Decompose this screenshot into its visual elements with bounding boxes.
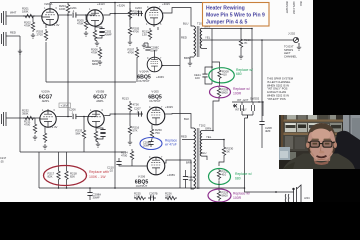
svg-text:THIS SPKR SYSTEM: THIS SPKR SYSTEM bbox=[267, 77, 294, 81]
pentode V204A output second bbox=[147, 57, 162, 72]
purple ellipse 1 bbox=[210, 86, 231, 98]
svg-text:V-206: V-206 bbox=[138, 175, 146, 179]
svg-text:OUTPUT: OUTPUT bbox=[136, 184, 148, 188]
svg-text:3300: 3300 bbox=[165, 194, 172, 198]
resistor R206 cathode 2 bbox=[94, 26, 96, 28]
svg-text:2K: 2K bbox=[227, 150, 231, 154]
svg-text:100R: 100R bbox=[233, 196, 242, 200]
svg-text:"INT ONLY" POS: "INT ONLY" POS bbox=[267, 87, 288, 91]
resistor R212 cathode output bbox=[148, 28, 151, 40]
channel 2 input jack bbox=[2, 112, 9, 126]
svg-text:AMPL: AMPL bbox=[42, 99, 50, 103]
T202 leads bbox=[182, 131, 224, 161]
annotation box heater rewiring bbox=[203, 3, 270, 27]
resistor R207 bbox=[129, 20, 131, 25]
svg-text:WHT: WHT bbox=[10, 11, 17, 15]
pentode V205 output mid bbox=[147, 107, 165, 125]
svg-text:INT ONLY: INT ONLY bbox=[235, 108, 247, 112]
purple ellipse 2 bbox=[208, 189, 231, 202]
triode V203A ch2 bbox=[40, 111, 56, 127]
ears bbox=[306, 142, 310, 148]
svg-text:+302V: +302V bbox=[162, 2, 170, 6]
svg-text:+1.4V: +1.4V bbox=[50, 125, 58, 129]
resistor R201 grid stopper bbox=[23, 14, 35, 17]
svg-text:410: 410 bbox=[222, 173, 227, 177]
cathode network V203B bbox=[95, 127, 97, 129]
forehead bbox=[312, 129, 331, 141]
wire: vertical x68 coupling node bbox=[67, 15, 69, 117]
svg-text:INT - EXT: INT - EXT bbox=[237, 98, 249, 102]
svg-text:4MF: 4MF bbox=[265, 129, 271, 133]
svg-text:YEL: YEL bbox=[205, 36, 211, 40]
svg-text:+211V: +211V bbox=[97, 2, 105, 6]
junction dots various bbox=[67, 14, 69, 16]
resistor R203 cathode ch1 bbox=[45, 24, 47, 28]
svg-text:Heater Rewiring: Heater Rewiring bbox=[206, 5, 245, 11]
wire: vertical x20 left bbox=[19, 36, 21, 152]
svg-text:.02: .02 bbox=[150, 194, 154, 198]
wire: input ch2 bbox=[8, 117, 40, 119]
wire: vertical x46 cathode ch1 bbox=[45, 42, 47, 82]
wire: vertical bus x130 top bbox=[129, 3, 131, 21]
webcam photo bbox=[279, 115, 360, 169]
svg-text:82K: 82K bbox=[70, 175, 75, 179]
green ellipse 2 bbox=[209, 169, 231, 185]
svg-text:470K: 470K bbox=[128, 51, 135, 55]
cheek shading bbox=[310, 148, 314, 156]
svg-text:Replace w/: Replace w/ bbox=[233, 87, 250, 91]
svg-text:V201A: V201A bbox=[44, 2, 53, 6]
resistor R229 in purple ellipse 2 bbox=[218, 180, 220, 188]
wire: horizontal y82 bbox=[46, 81, 136, 83]
svg-text:180K: 180K bbox=[22, 10, 29, 14]
speaker bbox=[285, 185, 301, 202]
svg-text:40MF: 40MF bbox=[105, 33, 112, 37]
photo background bbox=[279, 115, 360, 169]
eyebrows bbox=[312, 139, 319, 141]
resistor R232 horizontal bbox=[23, 116, 35, 119]
capacitor C208 right bbox=[259, 122, 264, 125]
ground at x20 bbox=[18, 49, 22, 54]
tube label V204A 6BQ5 bbox=[137, 70, 151, 84]
svg-text:R213: R213 bbox=[122, 97, 129, 101]
capacitor C204 ch2 bbox=[73, 114, 76, 119]
wire: red ellipse resistor columns bbox=[59, 152, 67, 188]
wire: vertical bus x115 bbox=[114, 3, 116, 189]
svg-text:J204: J204 bbox=[304, 196, 310, 200]
svg-text:AMPL: AMPL bbox=[96, 99, 104, 103]
capacitor CE11 bbox=[202, 74, 207, 77]
resistor R211 grid leak ch2 bbox=[34, 118, 36, 122]
svg-text:.05: .05 bbox=[0, 160, 4, 164]
red ellipse resistors R217 R218 bbox=[57, 169, 60, 181]
wire: sw drop to speaker bus bbox=[245, 118, 295, 192]
blue ellipse bbox=[140, 138, 162, 150]
svg-text:100: 100 bbox=[195, 76, 200, 80]
svg-text:CHANNEL: CHANNEL bbox=[284, 54, 297, 58]
resistor upper mid at x100 bbox=[98, 47, 101, 59]
second equipment row bbox=[284, 122, 342, 133]
svg-text:5600: 5600 bbox=[222, 194, 229, 198]
resistor R213 ch2 plate bbox=[128, 101, 131, 113]
svg-text:27K: 27K bbox=[133, 129, 138, 133]
junction dots bottom bus bbox=[58, 187, 60, 189]
resistor R228 in green ellipse 2 bbox=[217, 168, 220, 180]
input jack J2 bbox=[2, 32, 9, 46]
svg-text:"INT-EXT" POS: "INT-EXT" POS bbox=[267, 97, 286, 101]
svg-text:410: 410 bbox=[222, 73, 227, 77]
svg-text:V-204A: V-204A bbox=[139, 70, 148, 74]
svg-text:7K: 7K bbox=[244, 41, 248, 45]
tube label V203B 6CG7 bbox=[93, 90, 107, 104]
green ellipse 1 bbox=[209, 68, 235, 83]
svg-text:470K: 470K bbox=[91, 51, 98, 55]
svg-text:470K: 470K bbox=[133, 30, 140, 34]
wire: screen bbox=[154, 25, 158, 30]
svg-text:750: 750 bbox=[155, 131, 160, 135]
capacitor C208C with ground bbox=[145, 47, 150, 50]
pentode V206 output bottom bbox=[147, 157, 165, 175]
svg-text:.02: .02 bbox=[109, 169, 113, 173]
resistor R202 grid leak bbox=[32, 16, 34, 20]
resistor R214 bbox=[130, 149, 133, 161]
capacitor C208B in blue ellipse bbox=[148, 142, 153, 145]
wire: input 2 down bbox=[8, 35, 20, 37]
resistor R204A plate load bbox=[128, 8, 131, 20]
svg-text:4700: 4700 bbox=[121, 154, 128, 158]
svg-text:82K: 82K bbox=[48, 175, 53, 179]
svg-text:RED: RED bbox=[181, 36, 187, 40]
connector J202 bbox=[293, 37, 299, 45]
wire: x212 down segment bbox=[211, 29, 213, 85]
svg-text:Replace w/: Replace w/ bbox=[235, 172, 252, 176]
tube label V203A 6CG7 bbox=[39, 90, 53, 104]
resistor R216 ch2 bbox=[128, 124, 131, 136]
wire: plate to coupling cap bbox=[58, 14, 72, 16]
svg-text:+16V: +16V bbox=[61, 104, 68, 108]
light items bottom left bbox=[279, 147, 290, 160]
capacitor C201 bbox=[73, 12, 76, 17]
wire: plate up to bus bbox=[49, 3, 51, 9]
+16V boxed label bbox=[59, 103, 71, 108]
svg-text:100K: 100K bbox=[59, 7, 66, 11]
resistor R215 cathode mid bbox=[151, 125, 153, 128]
transformer T201 bbox=[194, 26, 202, 57]
right black bar bbox=[313, 0, 360, 202]
svg-text:470K: 470K bbox=[77, 22, 84, 26]
head bbox=[307, 123, 335, 161]
wire: V205 plate to T202 bbox=[165, 114, 194, 129]
svg-text:IS LEFT CHANNEL: IS LEFT CHANNEL bbox=[267, 80, 291, 84]
transformer T202 bbox=[194, 128, 202, 189]
capacitor C210 bbox=[116, 162, 121, 165]
svg-text:100K - 1W: 100K - 1W bbox=[89, 175, 106, 179]
input jack J1 bbox=[2, 11, 9, 25]
glasses lens tint bbox=[310, 141, 319, 147]
capacitor C212 bbox=[183, 177, 188, 180]
svg-text:V-205: V-205 bbox=[151, 90, 159, 94]
shelf board 1 bbox=[281, 120, 343, 122]
switch SW202 bbox=[232, 102, 263, 118]
svg-text:680: 680 bbox=[236, 72, 242, 76]
svg-text:100R: 100R bbox=[233, 91, 242, 95]
wire: input 1 to grid bbox=[8, 15, 42, 17]
resistor R230 bbox=[222, 145, 225, 157]
svg-text:WHEN S202 IS IN: WHEN S202 IS IN bbox=[267, 83, 289, 87]
capacitor C202 cathode bypass bbox=[99, 29, 104, 32]
svg-text:Jumper Pin 4 & 5: Jumper Pin 4 & 5 bbox=[206, 19, 247, 25]
glasses bbox=[308, 141, 335, 147]
note paragraph right bbox=[267, 77, 294, 101]
svg-text:BLK: BLK bbox=[184, 117, 189, 121]
svg-text:BRN: BRN bbox=[186, 161, 192, 165]
svg-text:130: 130 bbox=[142, 33, 147, 37]
wire: cap to V203B ch2 bbox=[76, 111, 96, 128]
svg-text:Replace with: Replace with bbox=[89, 170, 109, 174]
T201 leads bbox=[190, 29, 294, 103]
wire: x262 top bbox=[261, 40, 263, 116]
svg-text:+320V: +320V bbox=[117, 4, 125, 8]
wire: ch2 plate to cap bbox=[56, 116, 72, 118]
pentode V204 output top bbox=[145, 7, 163, 25]
tube label V205 6BQ5 bbox=[148, 90, 162, 104]
shirt bbox=[283, 154, 355, 170]
resistor R210 bbox=[239, 37, 242, 49]
capacitor C205 ch2 bbox=[139, 111, 142, 116]
wire: cap to V201B grid bbox=[76, 10, 95, 18]
wire: horizontal y152 bbox=[20, 151, 126, 153]
resistor mid at x137 bbox=[135, 47, 138, 59]
hair bbox=[307, 123, 335, 144]
wire: vertical x130 ch2 bbox=[129, 113, 131, 124]
tube pin digits bbox=[42, 6, 163, 159]
svg-text:OUTPUT: OUTPUT bbox=[138, 79, 150, 83]
triode V203B ch2 bbox=[88, 111, 104, 127]
resistor R205 grid leak 2 bbox=[84, 18, 87, 30]
svg-text:GRN: GRN bbox=[205, 127, 211, 131]
svg-text:470K: 470K bbox=[24, 24, 31, 28]
svg-text:BRN-WHT: BRN-WHT bbox=[285, 2, 288, 14]
svg-text:20MF: 20MF bbox=[143, 143, 150, 147]
mouth bbox=[317, 156, 327, 158]
wire: V201B plate to coupling cap 2 bbox=[103, 14, 143, 16]
nose bbox=[320, 145, 323, 152]
eyes bbox=[313, 143, 318, 145]
svg-text:w/ 47uF: w/ 47uF bbox=[165, 142, 177, 146]
svg-text:680: 680 bbox=[235, 176, 241, 180]
vertical text labels top right bbox=[285, 2, 302, 14]
resistor cathode ch2 bbox=[44, 126, 46, 131]
svg-text:C217: C217 bbox=[0, 156, 7, 160]
triode V201A bbox=[42, 9, 58, 25]
top equipment row bbox=[284, 115, 336, 120]
tube label V206 6BQ5 bbox=[135, 175, 149, 189]
bottom: capacitor C209A bbox=[87, 193, 92, 196]
svg-text:Move Pin 5 Wire to Pin 9: Move Pin 5 Wire to Pin 9 bbox=[206, 12, 265, 18]
wire: output plate to transformer bbox=[163, 8, 194, 27]
svg-text:J-202: J-202 bbox=[288, 32, 295, 36]
svg-text:1200: 1200 bbox=[134, 194, 141, 198]
resistor R208 in green ellipse 1 bbox=[212, 62, 220, 68]
svg-text:RED: RED bbox=[10, 31, 16, 35]
wire: top B+ bus bbox=[50, 2, 212, 4]
wire: V203B plate to C205 bbox=[104, 114, 143, 116]
svg-text:V203B: V203B bbox=[96, 90, 105, 94]
triode V201B bbox=[87, 10, 103, 26]
resistor R233 ch2 bbox=[82, 128, 85, 140]
svg-text:V203A: V203A bbox=[41, 90, 50, 94]
lower shelf items bbox=[283, 135, 335, 151]
svg-text:YEL: YEL bbox=[206, 135, 212, 139]
plate load resistor R204 on x68 bbox=[66, 3, 69, 15]
svg-text:56K: 56K bbox=[76, 132, 81, 136]
resistor R209 in purple ellipse 1 bbox=[219, 80, 221, 86]
svg-text:BRN: BRN bbox=[184, 56, 190, 60]
red ellipse bbox=[44, 166, 87, 186]
svg-text:BLU: BLU bbox=[183, 22, 188, 26]
neck bbox=[313, 150, 331, 161]
svg-text:2700: 2700 bbox=[37, 33, 44, 37]
left shelf post bbox=[281, 115, 284, 169]
schematic white background bbox=[0, 0, 313, 202]
svg-text:Replace w/: Replace w/ bbox=[236, 68, 253, 72]
wire: x39 drop bbox=[38, 152, 40, 188]
svg-text:6800: 6800 bbox=[92, 62, 99, 66]
svg-text:& RIGHT CHAN: & RIGHT CHAN bbox=[267, 90, 286, 94]
wire: purple1 to T202 GRN bbox=[213, 98, 219, 131]
svg-text:RED: RED bbox=[181, 135, 187, 139]
right wall bbox=[343, 115, 360, 145]
svg-text:SW202: SW202 bbox=[250, 97, 260, 101]
svg-text:+404V: +404V bbox=[156, 75, 164, 79]
resistor R226 bottom bbox=[165, 196, 177, 199]
shelf board 2 bbox=[281, 133, 343, 136]
svg-text:+302V: +302V bbox=[165, 105, 173, 109]
resistor R225 bottom bbox=[134, 196, 146, 199]
wire: ch2 plate up bbox=[47, 109, 49, 111]
wire: vertical bus x180 bbox=[179, 28, 181, 188]
svg-text:30MF: 30MF bbox=[93, 196, 100, 200]
svg-text:WHEN S202 IS IN: WHEN S202 IS IN bbox=[267, 94, 289, 98]
svg-text:4700: 4700 bbox=[24, 123, 31, 127]
svg-text:Replace w/: Replace w/ bbox=[233, 192, 250, 196]
svg-text:+465V: +465V bbox=[167, 173, 175, 177]
svg-text:OUTPUT: OUTPUT bbox=[149, 99, 161, 103]
svg-text:390K: 390K bbox=[22, 112, 29, 116]
svg-text:GRN-COM: GRN-COM bbox=[292, 2, 295, 14]
capacitor C203 bbox=[139, 11, 142, 16]
svg-text:BLU: BLU bbox=[201, 151, 206, 155]
chin shadow bbox=[314, 160, 329, 165]
capacitor C207B bottom bbox=[151, 195, 154, 200]
svg-text:100: 100 bbox=[189, 178, 194, 182]
wire: V206 plate to T202 bottom bbox=[165, 160, 194, 189]
svg-text:BLK: BLK bbox=[299, 2, 302, 7]
chair bbox=[330, 131, 360, 169]
wire: bottom ground bus bbox=[39, 187, 245, 189]
svg-text:5600: 5600 bbox=[222, 91, 229, 95]
